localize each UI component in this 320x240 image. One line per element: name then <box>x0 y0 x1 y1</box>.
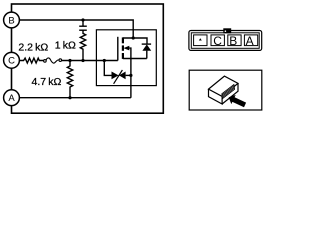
svg-text:B: B <box>229 34 237 48</box>
svg-text:1 kΩ: 1 kΩ <box>55 39 76 51</box>
svg-text:A: A <box>246 34 254 48</box>
svg-text:C: C <box>213 34 222 48</box>
svg-text:A: A <box>8 93 15 104</box>
svg-text:2.2 kΩ: 2.2 kΩ <box>18 42 48 54</box>
svg-text:C: C <box>8 56 15 67</box>
svg-text:B: B <box>8 15 14 26</box>
svg-text:4.7 kΩ: 4.7 kΩ <box>32 76 62 88</box>
